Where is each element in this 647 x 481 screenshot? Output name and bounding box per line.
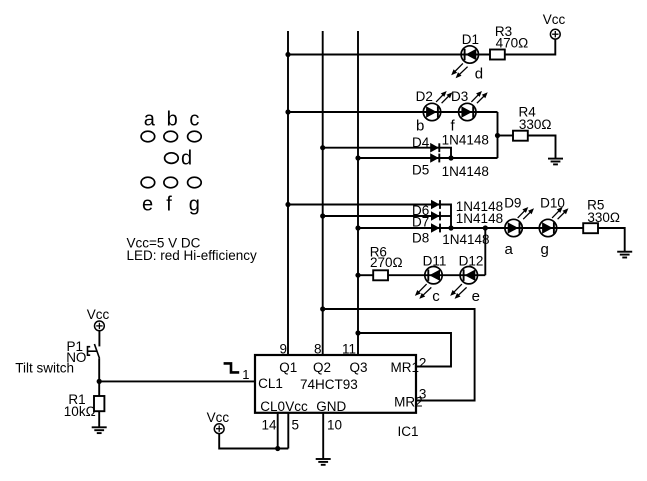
svg-text:14: 14 — [262, 417, 278, 432]
svg-text:g: g — [541, 241, 549, 258]
wire D6 row — [288, 204, 440, 206]
LED D3 (f) — [451, 89, 488, 135]
svg-text:a: a — [144, 109, 156, 131]
IC U1 74HCT93 box — [255, 355, 423, 439]
power Vcc tilt switch — [87, 307, 110, 331]
dice dot row 1 — [141, 131, 201, 142]
wire pin10 to ground — [322, 413, 324, 459]
svg-text:1N4148: 1N4148 — [442, 164, 489, 179]
wire CL1 row — [99, 380, 255, 382]
svg-text:Vcc: Vcc — [87, 307, 110, 322]
svg-text:d: d — [475, 65, 483, 82]
svg-text:D12: D12 — [459, 254, 484, 269]
wire Vcc rail bottom — [219, 434, 288, 449]
svg-text:470Ω: 470Ω — [496, 35, 529, 50]
diode D5 1N4148 — [412, 153, 489, 179]
dice dot row 3 — [141, 177, 201, 188]
wire R1 to ground — [98, 411, 100, 427]
wire D1 row — [288, 54, 490, 56]
svg-text:Tilt switch: Tilt switch — [15, 360, 74, 375]
ground under IC pin10 — [316, 459, 331, 465]
svg-text:D4: D4 — [412, 135, 430, 150]
LED D9 (a) — [504, 196, 534, 259]
svg-text:D5: D5 — [412, 163, 429, 178]
wire R4 left — [498, 135, 514, 137]
diode D7 1N4148 — [412, 211, 503, 230]
wire D7 row — [323, 215, 440, 217]
svg-text:b: b — [167, 109, 178, 131]
svg-text:a: a — [505, 241, 514, 258]
svg-text:Vcc: Vcc — [543, 12, 566, 27]
svg-text:d: d — [181, 148, 192, 170]
svg-text:10kΩ: 10kΩ — [64, 404, 96, 419]
wire R4 to ground — [528, 136, 556, 159]
wire vertical join b f group — [497, 112, 499, 158]
wire D8 row to R5 — [358, 227, 583, 229]
wire Vcc to switch — [98, 331, 100, 347]
wire pin14 stub — [277, 413, 279, 449]
svg-text:D11: D11 — [423, 254, 447, 269]
ground under R1 — [92, 427, 107, 433]
svg-text:D9: D9 — [504, 196, 521, 211]
svg-text:c: c — [189, 109, 199, 131]
wire R3 to Vcc — [505, 39, 556, 54]
wire pin5 stub — [287, 413, 289, 449]
svg-text:b: b — [416, 117, 424, 134]
svg-text:8: 8 — [314, 341, 322, 356]
LED D1 (d) — [451, 32, 483, 83]
svg-text:CL1: CL1 — [258, 376, 283, 391]
svg-text:1N4148: 1N4148 — [456, 211, 503, 226]
LED D2 (b) — [416, 89, 453, 135]
wire bus Q2 vertical — [322, 31, 324, 355]
svg-text:330Ω: 330Ω — [587, 210, 620, 225]
svg-text:3: 3 — [419, 387, 427, 402]
svg-text:IC1: IC1 — [398, 424, 419, 439]
power Vcc IC supply — [207, 410, 230, 433]
svg-text:11: 11 — [342, 341, 356, 356]
wire switch to R1 — [98, 358, 100, 396]
svg-text:270Ω: 270Ω — [370, 255, 403, 270]
svg-text:74HCT93: 74HCT93 — [300, 377, 358, 392]
wire D2 D3 row — [288, 111, 498, 113]
wire MR2 route — [323, 309, 475, 401]
diode D4 1N4148 — [412, 132, 489, 152]
svg-text:CL0: CL0 — [260, 399, 285, 414]
svg-text:MR1: MR1 — [391, 360, 420, 375]
wire D4 row — [323, 147, 440, 149]
svg-text:1N4148: 1N4148 — [442, 132, 489, 147]
svg-text:10: 10 — [327, 417, 342, 432]
svg-text:Vcc: Vcc — [207, 410, 230, 425]
resistor R1 10k — [64, 392, 105, 419]
svg-text:Q1: Q1 — [279, 360, 297, 375]
svg-text:f: f — [166, 194, 172, 216]
diode D6 1N4148 — [412, 199, 503, 218]
svg-text:GND: GND — [316, 399, 346, 414]
wire bus Q1 vertical — [287, 31, 289, 355]
svg-text:D8: D8 — [412, 230, 429, 245]
wire bus Q3 vertical — [357, 31, 359, 355]
svg-text:D10: D10 — [540, 196, 565, 211]
wire R6 left — [358, 274, 373, 276]
svg-text:Q3: Q3 — [350, 360, 368, 375]
svg-text:e: e — [142, 194, 153, 216]
LED D11 (c) — [415, 254, 446, 306]
wire D7 cathode join — [440, 215, 451, 217]
wire R5 to ground — [598, 228, 625, 252]
resistor R5 330 — [583, 198, 620, 234]
svg-text:9: 9 — [280, 341, 288, 356]
wire D5 row — [358, 157, 498, 159]
svg-text:2: 2 — [419, 356, 427, 371]
svg-text:e: e — [472, 288, 480, 305]
svg-text:LED: red Hi-efficiency: LED: red Hi-efficiency — [127, 248, 258, 263]
svg-text:D1: D1 — [462, 32, 479, 47]
svg-text:D2: D2 — [416, 89, 433, 104]
resistor R4 330 — [513, 105, 552, 141]
svg-text:Q2: Q2 — [313, 360, 331, 375]
resistor R6 270 — [370, 244, 403, 280]
diode D8 1N4148 — [412, 223, 489, 247]
svg-text:5: 5 — [292, 417, 300, 432]
svg-text:D3: D3 — [451, 89, 468, 104]
svg-text:330Ω: 330Ω — [519, 117, 552, 132]
wire D11 D12 row — [388, 274, 485, 276]
wire D6 cathode join — [440, 205, 451, 229]
power Vcc top right — [543, 12, 566, 39]
svg-text:Vcc: Vcc — [285, 399, 308, 414]
clock edge symbol — [224, 363, 240, 372]
svg-text:1N4148: 1N4148 — [442, 232, 489, 247]
wire MR1 route — [358, 333, 451, 367]
svg-text:g: g — [189, 194, 200, 216]
LED D12 (e) — [450, 254, 483, 306]
ground under R5 — [617, 252, 632, 258]
node junction dots — [97, 52, 501, 451]
wire D4 cathode join — [439, 148, 451, 158]
LED D10 (g) — [539, 196, 568, 259]
svg-text:D7: D7 — [412, 215, 429, 230]
svg-text:c: c — [432, 288, 440, 305]
dice dot middle + letter d — [165, 153, 179, 164]
resistor R3 470 — [490, 24, 528, 60]
ground under R4 — [548, 159, 563, 165]
wire riser c e group — [484, 228, 486, 275]
svg-text:1: 1 — [242, 367, 249, 382]
switch P1 tilt switch — [15, 339, 99, 375]
